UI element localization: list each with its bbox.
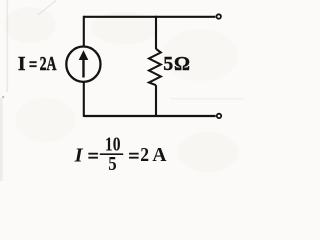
resistor R1 zigzag	[149, 49, 161, 85]
wire bottom rail	[84, 115, 216, 117]
wire left vertical upper	[83, 16, 85, 47]
faint smudge line right mid	[170, 98, 243, 99]
node: top terminal	[217, 14, 221, 18]
svg-text:=: =	[29, 55, 37, 76]
svg-text:I: I	[74, 144, 84, 166]
svg-text:=: =	[88, 147, 99, 168]
paper mottling patches	[162, 29, 238, 81]
wire left vertical lower	[83, 82, 85, 117]
current source I1 circle	[66, 46, 100, 81]
svg-text:I: I	[18, 54, 26, 75]
svg-text:2A: 2A	[40, 54, 57, 75]
current source arrow head	[79, 50, 89, 60]
svg-text:10: 10	[105, 135, 121, 156]
svg-text:2: 2	[140, 145, 149, 166]
wire top rail	[84, 16, 216, 18]
current source arrow shaft	[82, 58, 84, 78]
faint scan strip bottom-left	[0, 98, 3, 181]
paper background	[0, 0, 243, 181]
svg-text:5: 5	[108, 154, 117, 175]
eq fraction bar	[100, 153, 123, 155]
faint diagonal scan mark top-left	[38, 1, 56, 16]
svg-text:A: A	[152, 145, 166, 166]
faint scan streak left edge	[7, 0, 9, 92]
wire resistor bottom lead	[155, 85, 157, 117]
faint speck left	[2, 96, 4, 98]
wire resistor top lead	[155, 16, 157, 49]
node: bottom terminal	[217, 114, 221, 118]
svg-text:5Ω: 5Ω	[163, 53, 191, 75]
svg-text:=: =	[128, 147, 139, 168]
